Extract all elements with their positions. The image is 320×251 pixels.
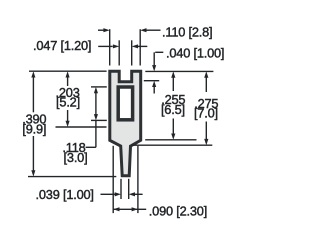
dimension .275 [7.0] (204, 71, 208, 77)
extension line: slot bottom (right side) (144, 80, 159, 82)
svg-text:[9.9]: [9.9] (22, 121, 46, 136)
extension line: .090 right (137, 146, 139, 213)
dimension .110 [2.8] overall fork width (98, 29, 104, 31)
part window cutout (118, 87, 132, 120)
svg-text:.110 [2.8]: .110 [2.8] (162, 25, 212, 40)
extension line: taper start (right side) (145, 139, 196, 141)
dimension .090 [2.30] (113, 208, 138, 210)
part body outline (110, 71, 141, 176)
extension line: window top (left side) (91, 86, 107, 88)
extension line: pin tip left edge (120, 179, 122, 199)
extension line: .090 left (112, 146, 114, 213)
extension line: pin tip right edge (128, 179, 130, 199)
svg-text:[6.5]: [6.5] (161, 102, 185, 117)
svg-text:.040 [1.00]: .040 [1.00] (166, 45, 224, 60)
svg-text:.090 [2.30]: .090 [2.30] (149, 203, 207, 218)
extension line: slot left edge (118, 40, 120, 65)
extension line: part top (right side) (145, 70, 213, 72)
svg-text:.047 [1.20]: .047 [1.20] (33, 38, 91, 53)
extension line: right prong outer edge (139, 29, 141, 65)
dimension .118 [3.0] window height (94, 87, 98, 93)
svg-text:[7.0]: [7.0] (194, 105, 218, 120)
dimension .390 [9.9] overall height (31, 71, 35, 77)
extension line: slot right edge (131, 40, 133, 65)
extension line: left prong outer edge (109, 29, 111, 65)
svg-text:.039 [1.00]: .039 [1.00] (36, 187, 94, 202)
extension line: pin tip bottom (left side) (28, 176, 116, 178)
extension line: .203 reference level (56, 126, 107, 128)
extension line: window bottom (left side) (91, 119, 107, 121)
svg-text:[5.2]: [5.2] (56, 95, 80, 110)
dimension .203 [5.2] (66, 71, 70, 77)
svg-text:[3.0]: [3.0] (64, 150, 88, 165)
dimension .255 [6.5] (171, 71, 175, 77)
extension line: part top (left side) (29, 70, 107, 72)
extension line: pin root (right side) (132, 144, 213, 146)
